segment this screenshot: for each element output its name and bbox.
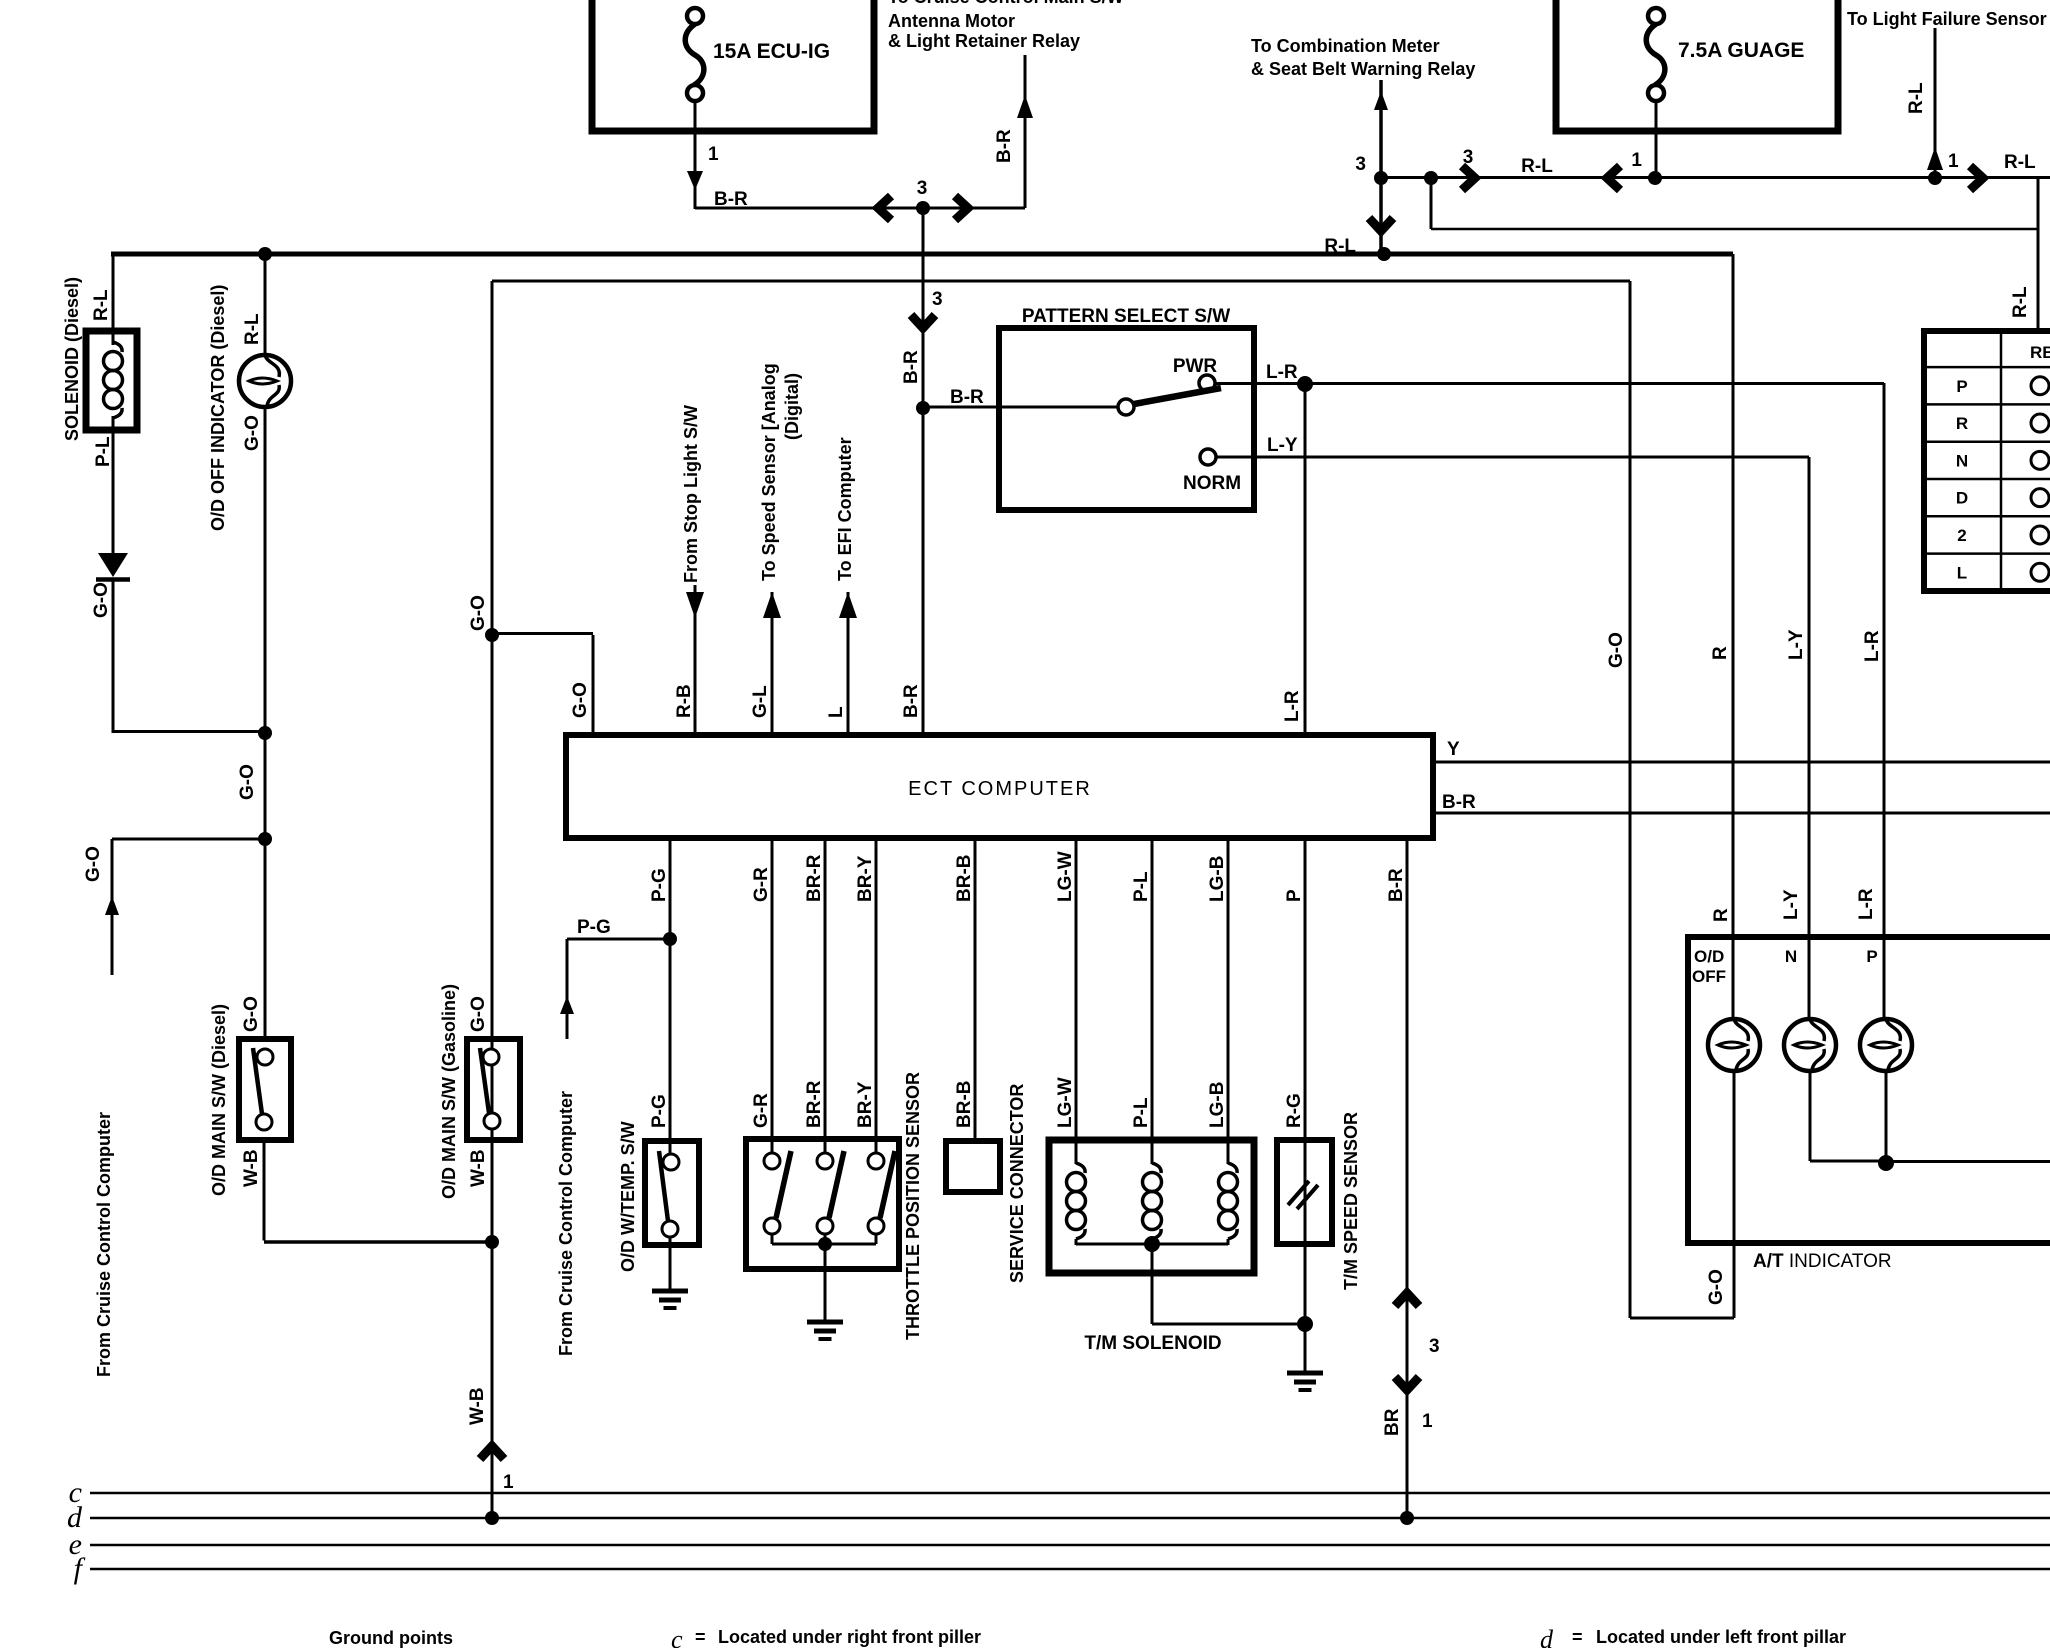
svg-text:L: L [1957, 563, 1967, 582]
svg-text:LG-W: LG-W [1055, 1077, 1076, 1128]
svg-text:To Combination Meter: To Combination Meter [1251, 36, 1440, 56]
svg-text:& Seat Belt Warning Relay: & Seat Belt Warning Relay [1251, 59, 1475, 79]
svg-text:P-G: P-G [649, 868, 670, 902]
svg-text:1: 1 [503, 1472, 514, 1493]
svg-text:L-Y: L-Y [1786, 629, 1807, 660]
svg-text:A/T INDICATOR: A/T INDICATOR [1753, 1251, 1892, 1272]
svg-text:L: L [826, 706, 847, 718]
svg-text:B-R: B-R [901, 350, 922, 384]
svg-text:BR-Y: BR-Y [855, 1081, 876, 1128]
svg-text:R-G: R-G [1284, 1093, 1305, 1128]
svg-text:THROTTLE POSITION SENSOR: THROTTLE POSITION SENSOR [903, 1072, 923, 1340]
svg-text:B-R: B-R [994, 129, 1015, 163]
svg-text:R: R [1710, 646, 1731, 660]
svg-text:P: P [1284, 889, 1305, 902]
svg-text:P-L: P-L [1131, 1097, 1152, 1128]
svg-text:P-L: P-L [1131, 871, 1152, 902]
svg-text:G-L: G-L [750, 685, 771, 718]
svg-text:R-L: R-L [91, 289, 112, 321]
svg-text:LG-B: LG-B [1207, 1082, 1228, 1128]
svg-text:G-R: G-R [751, 867, 772, 902]
svg-text:BR: BR [1382, 1408, 1403, 1436]
svg-text:G-O: G-O [1706, 1269, 1727, 1305]
svg-text:c: c [671, 1625, 683, 1648]
svg-text:3: 3 [1463, 147, 1474, 168]
svg-text:G-O: G-O [91, 582, 112, 618]
svg-text:& Light Retainer Relay: & Light Retainer Relay [888, 31, 1080, 51]
svg-text:1: 1 [1631, 150, 1642, 171]
svg-text:1: 1 [708, 144, 719, 165]
svg-text:R-L: R-L [2010, 286, 2031, 318]
svg-text:R: R [1956, 414, 1968, 433]
svg-text:BR-R: BR-R [804, 1080, 825, 1128]
svg-text:To Light Failure Sensor: To Light Failure Sensor [1847, 9, 2047, 29]
svg-text:3: 3 [917, 178, 928, 199]
svg-text:SERVICE CONNECTOR: SERVICE CONNECTOR [1007, 1084, 1027, 1283]
svg-text:P-G: P-G [577, 917, 611, 938]
svg-text:G-O: G-O [468, 996, 489, 1032]
svg-text:3: 3 [932, 289, 943, 310]
svg-text:B-R: B-R [950, 387, 984, 408]
svg-text:O/D OFF INDICATOR (Diesel): O/D OFF INDICATOR (Diesel) [208, 285, 228, 531]
svg-text:N: N [1785, 947, 1797, 966]
svg-text:BR-R: BR-R [804, 854, 825, 902]
svg-text:P: P [1956, 377, 1967, 396]
svg-text:G-O: G-O [242, 415, 263, 451]
svg-text:G-O: G-O [241, 996, 262, 1032]
svg-text:PWR: PWR [1173, 356, 1218, 377]
svg-text:15A ECU-IG: 15A ECU-IG [713, 40, 830, 63]
svg-text:R-L: R-L [2004, 152, 2036, 173]
svg-text:d: d [1540, 1625, 1554, 1648]
svg-text:W-B: W-B [468, 1149, 489, 1187]
svg-text:BR-B: BR-B [954, 1081, 975, 1129]
svg-text:Located under right front pill: Located under right front piller [718, 1627, 981, 1647]
svg-text:To Speed Sensor [Analog: To Speed Sensor [Analog [759, 363, 779, 581]
svg-text:PATTERN SELECT S/W: PATTERN SELECT S/W [1022, 306, 1230, 327]
svg-text:OFF: OFF [1692, 967, 1726, 986]
svg-text:L-R: L-R [1266, 362, 1298, 383]
svg-text:7.5A GUAGE: 7.5A GUAGE [1678, 39, 1804, 62]
svg-text:NORM: NORM [1183, 473, 1241, 494]
svg-text:1: 1 [1422, 1411, 1433, 1432]
svg-text:RB: RB [2030, 343, 2050, 362]
svg-text:LG-W: LG-W [1055, 851, 1076, 902]
svg-text:W-B: W-B [467, 1387, 488, 1425]
svg-text:ECT COMPUTER: ECT COMPUTER [908, 778, 1092, 800]
svg-text:From Stop Light S/W: From Stop Light S/W [681, 405, 701, 583]
svg-text:2: 2 [1957, 526, 1966, 545]
svg-text:P: P [1866, 947, 1877, 966]
svg-text:Antenna Motor: Antenna Motor [888, 11, 1015, 31]
svg-text:B-R: B-R [1442, 792, 1476, 813]
svg-text:SOLENOID (Diesel): SOLENOID (Diesel) [62, 277, 82, 441]
svg-text:D: D [1956, 489, 1968, 508]
svg-text:=: = [695, 1627, 706, 1647]
svg-text:G-O: G-O [570, 682, 591, 718]
svg-text:Y: Y [1447, 739, 1460, 760]
svg-text:To Cruise Control Main S/W: To Cruise Control Main S/W [888, 0, 1124, 7]
svg-text:3: 3 [1355, 154, 1366, 175]
svg-text:L-R: L-R [1862, 630, 1883, 662]
svg-text:From Cruise Control Computer: From Cruise Control Computer [556, 1091, 576, 1356]
svg-text:G-O: G-O [83, 846, 104, 882]
svg-text:L-Y: L-Y [1781, 889, 1802, 920]
svg-text:To EFI Computer: To EFI Computer [835, 437, 855, 581]
svg-text:R-L: R-L [1906, 82, 1927, 114]
svg-text:G-O: G-O [237, 764, 258, 800]
svg-text:G-R: G-R [751, 1093, 772, 1128]
svg-text:O/D MAIN S/W (Diesel): O/D MAIN S/W (Diesel) [209, 1004, 229, 1196]
svg-text:P-L: P-L [93, 436, 114, 467]
svg-text:T/M SOLENOID: T/M SOLENOID [1084, 1333, 1221, 1354]
svg-text:L-Y: L-Y [1267, 435, 1298, 456]
svg-text:(Digital): (Digital) [782, 373, 802, 440]
svg-text:G-O: G-O [1606, 632, 1627, 668]
svg-text:=: = [1572, 1627, 1583, 1647]
svg-text:Located under left front pilla: Located under left front pillar [1596, 1627, 1846, 1647]
svg-text:B-R: B-R [901, 684, 922, 718]
svg-text:Ground points: Ground points [329, 1628, 453, 1648]
svg-text:O/D W/TEMP. S/W: O/D W/TEMP. S/W [618, 1121, 638, 1272]
svg-text:3: 3 [1429, 1336, 1440, 1357]
svg-text:B-R: B-R [1386, 868, 1407, 902]
svg-text:G-O: G-O [468, 595, 489, 631]
svg-text:W-B: W-B [241, 1149, 262, 1187]
svg-text:B-R: B-R [714, 189, 748, 210]
svg-text:L-R: L-R [1282, 690, 1303, 722]
svg-text:From Cruise Control Computer: From Cruise Control Computer [94, 1112, 114, 1377]
svg-text:R-B: R-B [674, 684, 695, 718]
svg-text:O/D: O/D [1694, 947, 1724, 966]
svg-text:LG-B: LG-B [1207, 856, 1228, 902]
svg-text:R-L: R-L [242, 313, 263, 345]
svg-text:BR-B: BR-B [954, 855, 975, 903]
svg-text:L-R: L-R [1856, 888, 1877, 920]
svg-text:R-L: R-L [1521, 156, 1553, 177]
svg-text:1: 1 [1948, 151, 1959, 172]
svg-text:R: R [1711, 908, 1732, 922]
svg-text:O/D MAIN S/W (Gasoline): O/D MAIN S/W (Gasoline) [439, 984, 459, 1199]
svg-text:T/M SPEED SENSOR: T/M SPEED SENSOR [1341, 1112, 1361, 1290]
svg-text:BR-Y: BR-Y [855, 855, 876, 902]
svg-text:P-G: P-G [649, 1094, 670, 1128]
svg-text:N: N [1956, 451, 1968, 470]
